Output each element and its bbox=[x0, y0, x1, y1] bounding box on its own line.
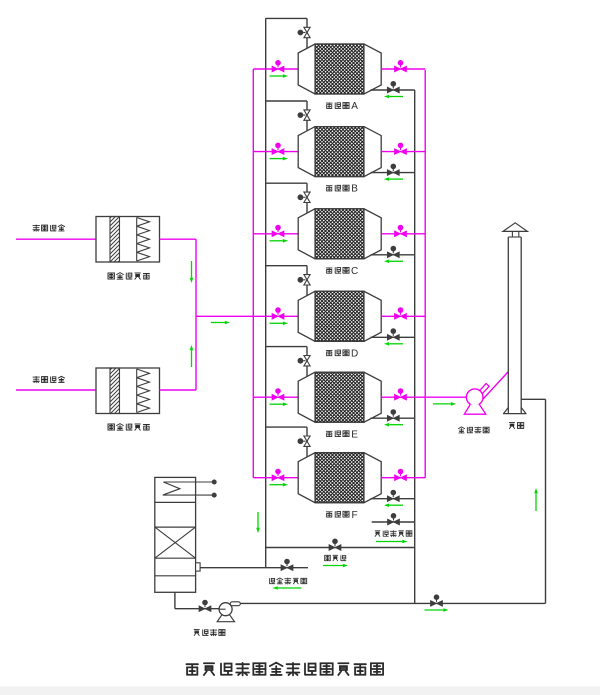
outlet valve box F bbox=[395, 469, 407, 481]
wire: outlet line box C bbox=[381, 233, 425, 235]
wire: catalytic cool-air line bbox=[200, 567, 308, 569]
wire: feed line box D bbox=[253, 315, 298, 317]
flow arrow right (feed E) bbox=[270, 403, 283, 405]
adsorption box E bbox=[298, 372, 381, 422]
label 切换阀 bbox=[325, 555, 346, 560]
flow arrow left (desorption C) bbox=[389, 260, 403, 262]
outlet valve box C bbox=[395, 225, 407, 237]
magenta right outlet manifold bbox=[424, 70, 426, 478]
flow arrow down (left manifold bottom) bbox=[257, 512, 259, 528]
bottom return valve bbox=[431, 594, 443, 606]
feed valve box C bbox=[272, 225, 284, 237]
flow arrow down (after top filter) bbox=[191, 261, 193, 278]
label 脱附风机 bbox=[194, 629, 225, 635]
wire: bottom return line bbox=[240, 602, 546, 604]
wire: junction vertical bbox=[195, 239, 197, 390]
adsorption box A bbox=[298, 44, 381, 94]
feed valve box B bbox=[272, 143, 284, 155]
svg-text:B: B bbox=[351, 184, 358, 195]
label 废气进入 (bottom) bbox=[33, 376, 65, 382]
outlet valve box E bbox=[395, 388, 407, 400]
wire: outlet line box D bbox=[381, 315, 425, 317]
flow arrow right (feed F) bbox=[270, 484, 283, 486]
desorption outlet valve box B bbox=[387, 164, 399, 176]
wire: chimney base to right drop bbox=[521, 398, 545, 400]
outlet valve box A bbox=[395, 60, 407, 72]
wire: riser box E bbox=[306, 347, 308, 378]
desorption inlet valve box C bbox=[298, 192, 311, 202]
label 吸附箱B bbox=[326, 184, 358, 195]
flow arrow right (to fan) bbox=[433, 403, 451, 405]
wire: desorption return box A bbox=[371, 89, 415, 91]
desorption fan 脱附风机 bbox=[217, 602, 240, 622]
wire: riser box F bbox=[306, 427, 308, 458]
wire: desorption return box E bbox=[371, 417, 415, 419]
desorption outlet valve box E bbox=[387, 409, 399, 421]
flow arrow right (desorption cooling) bbox=[376, 541, 402, 543]
svg-text:F: F bbox=[352, 510, 358, 521]
dark left desorption manifold bbox=[265, 18, 267, 567]
flow arrow right (feed B) bbox=[270, 158, 283, 160]
catalytic cooling valve 催化补冷阀 bbox=[281, 559, 293, 571]
wire: feed line box C bbox=[253, 233, 298, 235]
heater element + thermocouples bbox=[163, 480, 217, 498]
outlet valve box D bbox=[395, 307, 407, 319]
wire: desorption branch box C bbox=[266, 182, 307, 184]
wire: desorption return box D bbox=[371, 336, 415, 338]
desorption inlet valve box E bbox=[298, 356, 311, 366]
wire: outlet line box E bbox=[381, 396, 425, 398]
wire: switch line bbox=[266, 547, 415, 549]
wire: desorption branch box E bbox=[266, 346, 307, 348]
flow arrow left (desorption F) bbox=[389, 504, 403, 506]
label 吸附箱D bbox=[326, 348, 358, 359]
desorption cooling valve 脱附补冷阀 bbox=[388, 513, 400, 525]
label 吸附箱A bbox=[326, 101, 358, 112]
catalytic oxidizer vessel bbox=[155, 477, 196, 592]
wire: desorption branch box A bbox=[266, 17, 307, 19]
dark right desorption manifold bbox=[414, 90, 416, 603]
wire: outlet line box A bbox=[381, 68, 425, 70]
wire: desorption branch box F bbox=[266, 426, 307, 428]
wire: feed line box E bbox=[253, 396, 298, 398]
label 干式过滤器 (top) bbox=[108, 273, 149, 280]
flow arrow right (bottom return) bbox=[425, 609, 444, 611]
adsorption box F bbox=[298, 453, 381, 503]
flow arrow left (desorption E) bbox=[389, 424, 403, 426]
label 废气进入 (top) bbox=[33, 225, 65, 231]
wire: outlet to main fan bbox=[425, 396, 466, 398]
flow arrow right (feed A) bbox=[270, 75, 283, 77]
flow arrow right (feed C) bbox=[270, 240, 283, 242]
feed valve box D bbox=[272, 307, 284, 319]
feed valve box E bbox=[272, 388, 284, 400]
wire: feed line box F bbox=[253, 477, 298, 479]
svg-text:E: E bbox=[351, 429, 358, 440]
flow arrow left (desorption B) bbox=[389, 178, 403, 180]
wire: feed line box A bbox=[253, 68, 298, 70]
svg-text:C: C bbox=[351, 266, 358, 277]
flow arrow left (catalytic cooling) bbox=[278, 587, 302, 589]
flow arrow right (switch line) bbox=[323, 565, 343, 567]
label 脱附补冷阀 bbox=[375, 531, 412, 537]
wire: outlet line box F bbox=[381, 477, 425, 479]
flow arrow left (desorption D) bbox=[389, 343, 403, 345]
flow arrow up (after bottom filter) bbox=[191, 350, 193, 367]
dry filter 干式过滤器 (top) bbox=[96, 217, 160, 263]
adsorption box D bbox=[298, 291, 381, 341]
wire: desorption return box C bbox=[371, 254, 415, 256]
flow arrow right (feed D) bbox=[270, 322, 283, 324]
adsorption box B bbox=[298, 127, 381, 177]
dry filter 干式过滤器 (bottom) bbox=[96, 368, 160, 414]
label 干式过滤器 (bottom) bbox=[108, 424, 149, 431]
left waste-gas inlet line (bottom) bbox=[16, 389, 96, 391]
wire: top filter outlet to junction bbox=[160, 238, 197, 240]
label 吸附箱C bbox=[326, 266, 358, 277]
flow arrow left (desorption A) bbox=[389, 96, 403, 98]
magenta left feed manifold bbox=[252, 69, 254, 478]
wire: feed line box B bbox=[253, 151, 298, 153]
desorption outlet valve box C bbox=[387, 246, 399, 258]
wire: desorption return box F bbox=[371, 498, 415, 500]
vessel outlet tab bbox=[196, 563, 201, 571]
desorption outlet valve box F bbox=[387, 490, 399, 502]
label 烟囱 bbox=[509, 423, 523, 429]
adsorption box C bbox=[298, 209, 381, 259]
wire: riser box D bbox=[306, 266, 308, 297]
outlet valve box B bbox=[395, 143, 407, 155]
wire: desorption return box B bbox=[371, 172, 415, 174]
main exhaust fan 主排风机 bbox=[464, 372, 508, 415]
wire: outlet line box B bbox=[381, 151, 425, 153]
desorption inlet valve box B bbox=[298, 110, 311, 120]
feed valve box F bbox=[272, 469, 284, 481]
title 喷漆房废气处理工艺流程图 bbox=[186, 663, 383, 676]
wire: riser box B bbox=[306, 101, 308, 132]
wire: right vertical return bbox=[545, 399, 547, 603]
wire: desorption branch box B bbox=[266, 100, 307, 102]
wire: main feed to manifold bbox=[196, 315, 253, 317]
wire: desorption cool-air line bbox=[372, 521, 415, 523]
flow arrow up (right return) bbox=[535, 493, 537, 511]
label 吸附箱E bbox=[326, 429, 358, 440]
desorption outlet valve box D bbox=[387, 328, 399, 340]
label 吸附箱F bbox=[326, 510, 357, 521]
bottom gray band bbox=[0, 687, 600, 695]
wire: desorption branch box D bbox=[266, 265, 307, 267]
desorption fan inlet valve bbox=[199, 600, 211, 612]
wire: vessel bottom outlet bbox=[174, 592, 176, 608]
desorption outlet valve box A bbox=[387, 81, 399, 93]
wire: riser box A bbox=[306, 18, 308, 49]
label 主排风机 bbox=[458, 427, 489, 433]
flow arrow right (main feed) bbox=[211, 322, 225, 324]
left waste-gas inlet line (top) bbox=[16, 238, 96, 240]
desorption inlet valve box D bbox=[298, 275, 311, 285]
desorption inlet valve box F bbox=[298, 436, 311, 446]
svg-text:A: A bbox=[351, 101, 358, 112]
svg-text:D: D bbox=[351, 348, 358, 359]
label 催化补冷阀 bbox=[270, 578, 307, 584]
wire: bottom filter outlet to junction bbox=[160, 389, 197, 391]
switching valve 切换阀 bbox=[329, 539, 341, 551]
feed valve box A bbox=[272, 60, 284, 72]
wire: riser box C bbox=[306, 183, 308, 214]
chimney 烟囱 bbox=[503, 223, 527, 414]
desorption inlet valve box A bbox=[298, 27, 311, 37]
